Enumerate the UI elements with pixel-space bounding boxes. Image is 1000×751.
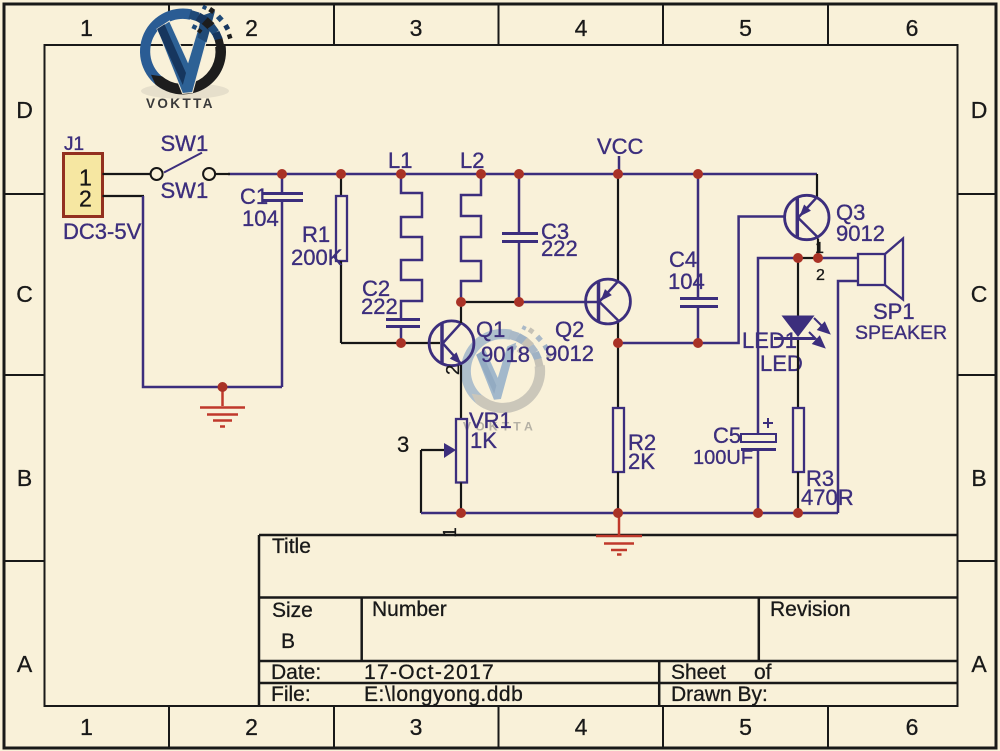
svg-text:D: D (16, 97, 33, 123)
svg-text:Date:: Date: (271, 661, 321, 684)
junction (613, 508, 623, 518)
svg-text:5: 5 (739, 15, 752, 41)
transistor Q2 (586, 279, 631, 324)
svg-text:B: B (971, 465, 986, 491)
svg-text:2: 2 (816, 267, 825, 284)
wire Q2 collector row to Q3 base (618, 217, 786, 344)
wire Q1 collector (460, 302, 462, 323)
capacitor C2 (386, 320, 420, 344)
resistor R3 (793, 408, 804, 513)
wire Q3 collector (817, 239, 819, 259)
wire Q1 emitter to VR1 (460, 365, 462, 419)
ground (200, 387, 245, 427)
junction (693, 338, 703, 348)
svg-text:C: C (16, 281, 33, 307)
svg-text:LED1: LED1 (742, 328, 797, 353)
power VCC (597, 134, 644, 174)
resistor R2 (613, 343, 624, 513)
resistor R1 (336, 174, 347, 343)
wire rail to Q3 emitter (816, 174, 818, 199)
capacitor C4 (680, 174, 718, 343)
transistor Q3 (785, 195, 829, 239)
svg-text:LED: LED (760, 351, 803, 376)
svg-text:Q1: Q1 (476, 317, 505, 342)
wire ground loop (143, 196, 282, 387)
svg-text:SW1: SW1 (161, 178, 209, 203)
svg-text:3: 3 (397, 432, 409, 457)
wire VCC rail (228, 173, 817, 176)
svg-text:A: A (971, 651, 987, 677)
junction (514, 297, 524, 307)
junction (613, 338, 623, 348)
junction (693, 169, 703, 179)
svg-text:2K: 2K (628, 449, 655, 474)
svg-text:VOKTTA: VOKTTA (146, 96, 215, 111)
svg-text:R1: R1 (302, 222, 330, 247)
svg-text:B: B (17, 465, 32, 491)
svg-text:C: C (971, 281, 988, 307)
svg-text:Size: Size (272, 599, 313, 622)
wire LED anode (797, 258, 799, 316)
svg-text:9012: 9012 (545, 341, 594, 366)
wire node to Q1 base (341, 342, 440, 344)
junction (277, 169, 287, 179)
wire LED cathode to R3 (797, 340, 799, 408)
ground (596, 513, 642, 555)
svg-text:Revision: Revision (770, 598, 851, 621)
svg-text:17-Oct-2017: 17-Oct-2017 (364, 661, 495, 684)
junction (396, 169, 406, 179)
svg-text:2: 2 (245, 15, 258, 41)
svg-text:Drawn By:: Drawn By: (671, 683, 768, 706)
svg-text:470R: 470R (801, 485, 854, 510)
junction (456, 508, 466, 518)
svg-text:4: 4 (575, 15, 588, 41)
connector J1 (64, 154, 103, 217)
svg-text:1: 1 (439, 527, 460, 537)
svg-text:C5: C5 (713, 423, 741, 448)
svg-text:DC3-5V: DC3-5V (63, 219, 142, 244)
svg-text:E:\longyong.ddb: E:\longyong.ddb (364, 683, 523, 706)
svg-text:J1: J1 (64, 134, 84, 155)
svg-text:SP1: SP1 (873, 299, 915, 324)
svg-text:of: of (754, 661, 772, 684)
junction (456, 297, 466, 307)
wire L2 node to Q2 base (461, 301, 597, 303)
svg-text:File:: File: (271, 683, 311, 706)
LED LED1 (774, 316, 829, 348)
svg-text:3: 3 (410, 15, 423, 41)
svg-text:SPEAKER: SPEAKER (855, 322, 947, 344)
svg-text:1: 1 (80, 15, 93, 41)
svg-text:2: 2 (79, 186, 92, 212)
svg-text:VCC: VCC (597, 134, 644, 159)
junction (813, 253, 823, 263)
wire Q2 collector down (617, 322, 619, 343)
junction (336, 169, 346, 179)
VOKTTA logo (140, 5, 233, 111)
VOKTTA watermark (461, 325, 552, 433)
svg-text:9012: 9012 (836, 221, 885, 246)
svg-text:1K: 1K (470, 428, 497, 453)
svg-text:100UF: 100UF (693, 447, 753, 469)
wire Q2 emitter to VCC (617, 174, 619, 281)
svg-text:1: 1 (80, 714, 93, 740)
svg-text:200K: 200K (291, 245, 343, 270)
capacitor C3 (502, 174, 538, 302)
potentiometer VR1 (421, 419, 467, 513)
switch SW1 (151, 153, 216, 180)
svg-text:222: 222 (361, 294, 398, 319)
svg-text:4: 4 (575, 714, 588, 740)
svg-text:Q2: Q2 (555, 317, 584, 342)
capacitor C1 (263, 174, 303, 201)
wire ground rail (421, 512, 838, 515)
svg-text:6: 6 (906, 714, 919, 740)
svg-text:B: B (281, 630, 295, 653)
svg-text:Sheet: Sheet (671, 661, 726, 684)
svg-text:104: 104 (242, 206, 279, 231)
wire VR1 wiper to ground rail (420, 450, 422, 513)
speaker SP1 (858, 239, 903, 300)
junction (218, 382, 228, 392)
svg-text:2: 2 (442, 365, 463, 375)
capacitor C5 (741, 418, 776, 513)
svg-text:222: 222 (541, 236, 578, 261)
junction (793, 253, 803, 263)
wire SW1 to rail stub (215, 173, 230, 175)
svg-text:D: D (971, 97, 988, 123)
wire speaker pin2 to ground rail (838, 281, 858, 513)
junction (396, 338, 406, 348)
inductor L1 (401, 174, 422, 318)
svg-text:A: A (17, 651, 33, 677)
transistor Q1 (429, 321, 474, 366)
svg-text:6: 6 (906, 15, 919, 41)
svg-text:5: 5 (739, 714, 752, 740)
wire C1 bottom leg (281, 201, 284, 387)
svg-text:9018: 9018 (481, 342, 530, 367)
svg-text:Title: Title (272, 535, 311, 558)
svg-text:SW1: SW1 (161, 131, 209, 156)
wire J1 pin1 to SW1 (103, 173, 151, 175)
svg-text:104: 104 (668, 269, 705, 294)
junction (753, 508, 763, 518)
wire collector node row (758, 258, 858, 434)
svg-text:3: 3 (410, 714, 423, 740)
junction (613, 169, 623, 179)
junction (514, 169, 524, 179)
inductor L2 (461, 174, 481, 302)
svg-text:2: 2 (245, 714, 258, 740)
wire J1 pin2 to ground loop (103, 195, 145, 197)
junction (793, 508, 803, 518)
junction (476, 169, 486, 179)
svg-text:Number: Number (372, 598, 447, 621)
